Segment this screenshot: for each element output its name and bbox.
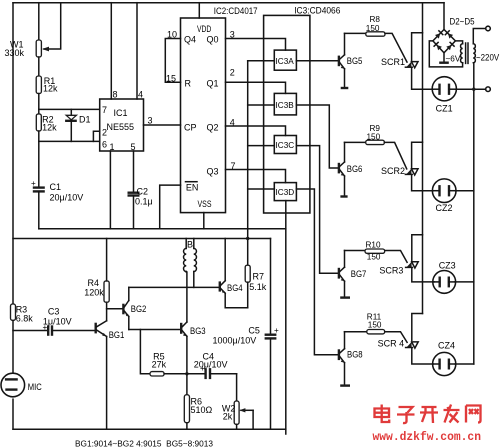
svg-text:SCR1: SCR1 bbox=[381, 57, 405, 67]
svg-text:IC3A: IC3A bbox=[276, 57, 295, 66]
svg-text:CZ1: CZ1 bbox=[436, 104, 453, 114]
svg-text:Q3: Q3 bbox=[207, 167, 219, 177]
svg-text:BG2: BG2 bbox=[131, 304, 147, 314]
svg-text:BG4: BG4 bbox=[227, 283, 243, 293]
svg-text:D1: D1 bbox=[79, 114, 91, 124]
svg-text:BG1: BG1 bbox=[109, 330, 125, 340]
svg-text:BG1:9014~BG2 4:9015 BG5~8:901: BG1:9014~BG2 4:9015 BG5~8:9013 bbox=[75, 440, 213, 448]
svg-text:8: 8 bbox=[113, 90, 118, 100]
svg-text:27k: 27k bbox=[152, 360, 167, 370]
svg-text:12k: 12k bbox=[43, 84, 58, 94]
svg-text:MIC: MIC bbox=[28, 382, 42, 392]
svg-text:NE555: NE555 bbox=[107, 122, 135, 132]
svg-text:20μ/10V: 20μ/10V bbox=[50, 193, 84, 203]
svg-text:BG7: BG7 bbox=[351, 269, 367, 279]
svg-text:4: 4 bbox=[138, 90, 143, 100]
svg-text:SCR 4: SCR 4 bbox=[378, 339, 405, 349]
svg-text:1: 1 bbox=[110, 142, 115, 152]
svg-text:1000μ/10V: 1000μ/10V bbox=[213, 335, 257, 345]
svg-text:2: 2 bbox=[102, 128, 107, 138]
svg-text:Q1: Q1 bbox=[207, 79, 219, 89]
svg-text:7: 7 bbox=[102, 105, 107, 115]
svg-text:330k: 330k bbox=[5, 48, 25, 58]
svg-text:+: + bbox=[274, 326, 279, 335]
svg-text:2: 2 bbox=[230, 68, 235, 78]
svg-text:IC2:CD4017: IC2:CD4017 bbox=[214, 6, 258, 16]
svg-text:~220V: ~220V bbox=[476, 53, 499, 63]
svg-text:C2: C2 bbox=[137, 187, 149, 197]
svg-text:D2~D5: D2~D5 bbox=[450, 17, 475, 27]
svg-text:CZ4: CZ4 bbox=[438, 340, 455, 350]
svg-text:C5: C5 bbox=[248, 326, 260, 336]
svg-text:R4: R4 bbox=[88, 278, 100, 288]
svg-text:SCR3: SCR3 bbox=[379, 266, 403, 276]
svg-text:10: 10 bbox=[167, 30, 177, 40]
svg-text:7: 7 bbox=[231, 161, 236, 171]
svg-text:R8: R8 bbox=[370, 15, 381, 24]
svg-text:510Ω: 510Ω bbox=[191, 405, 213, 415]
svg-text:R: R bbox=[185, 79, 192, 89]
svg-text:Q0: Q0 bbox=[207, 35, 219, 45]
svg-text:IC3C: IC3C bbox=[276, 141, 295, 150]
svg-text:IC3D: IC3D bbox=[276, 188, 295, 197]
svg-text:IC1: IC1 bbox=[114, 108, 128, 118]
svg-text:20μ/10V: 20μ/10V bbox=[194, 360, 228, 370]
svg-text:15: 15 bbox=[166, 74, 176, 84]
svg-text:3: 3 bbox=[230, 30, 235, 40]
svg-text:IC3B: IC3B bbox=[276, 101, 295, 110]
svg-text:0.1μ: 0.1μ bbox=[135, 197, 153, 207]
svg-text:C1: C1 bbox=[50, 182, 62, 192]
svg-text:~6V: ~6V bbox=[446, 54, 461, 63]
svg-text:BG8: BG8 bbox=[347, 350, 363, 360]
svg-text:BG6: BG6 bbox=[347, 164, 363, 174]
svg-text:150: 150 bbox=[367, 252, 381, 261]
svg-text:+: + bbox=[31, 179, 36, 188]
svg-text:R10: R10 bbox=[366, 240, 381, 249]
svg-text:4: 4 bbox=[230, 118, 235, 128]
svg-text:3: 3 bbox=[148, 116, 153, 126]
svg-text:www.dzkfw.com.cn: www.dzkfw.com.cn bbox=[373, 430, 482, 444]
svg-text:CP: CP bbox=[184, 123, 197, 133]
svg-text:120k: 120k bbox=[84, 288, 104, 298]
svg-text:1μ/10V: 1μ/10V bbox=[43, 317, 72, 327]
svg-text:150: 150 bbox=[366, 24, 380, 33]
svg-text:BG3: BG3 bbox=[190, 326, 206, 336]
svg-text:R7: R7 bbox=[253, 271, 265, 281]
svg-text:12k: 12k bbox=[42, 123, 57, 133]
svg-text:IC3:CD4066: IC3:CD4066 bbox=[294, 6, 340, 16]
svg-text:C3: C3 bbox=[48, 306, 60, 316]
svg-text:Q2: Q2 bbox=[207, 123, 219, 133]
svg-text:VSS: VSS bbox=[198, 199, 212, 209]
svg-text:SCR2: SCR2 bbox=[381, 166, 405, 176]
svg-text:6: 6 bbox=[102, 140, 107, 150]
svg-text:VDD: VDD bbox=[197, 24, 212, 34]
svg-text:6.8k: 6.8k bbox=[16, 313, 34, 323]
svg-text:2k: 2k bbox=[223, 412, 233, 422]
svg-text:B: B bbox=[187, 240, 193, 250]
svg-text:CZ3: CZ3 bbox=[439, 260, 456, 270]
svg-text:150: 150 bbox=[367, 132, 381, 141]
svg-text:EN: EN bbox=[186, 183, 199, 193]
svg-text:CZ2: CZ2 bbox=[436, 203, 453, 213]
svg-text:150: 150 bbox=[368, 320, 382, 329]
svg-text:BG5: BG5 bbox=[347, 56, 363, 66]
svg-text:5.1k: 5.1k bbox=[249, 282, 267, 292]
svg-text:Q4: Q4 bbox=[184, 35, 196, 45]
svg-text:5: 5 bbox=[131, 142, 136, 152]
